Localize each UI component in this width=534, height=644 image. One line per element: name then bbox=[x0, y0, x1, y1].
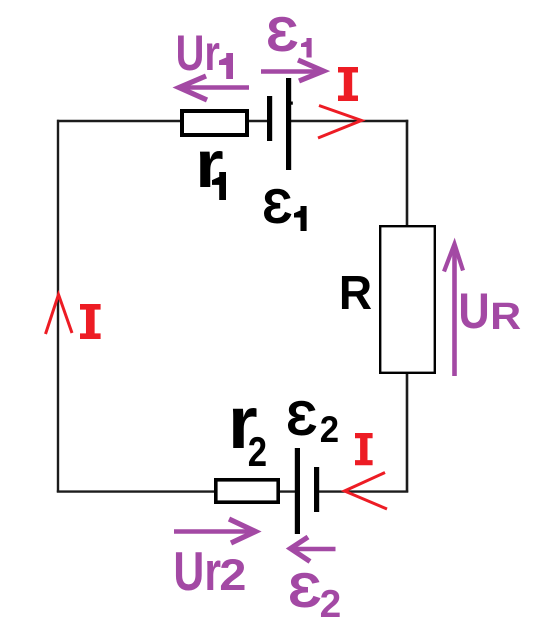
resistor r2 bbox=[216, 480, 278, 502]
label E1 purple bbox=[266, 7, 312, 62]
svg-text:2: 2 bbox=[320, 583, 342, 626]
battery E2 long plate bbox=[295, 448, 300, 534]
wire: battery E2 to r2 bbox=[279, 490, 296, 492]
svg-text:2: 2 bbox=[219, 551, 246, 600]
svg-text:U: U bbox=[458, 283, 489, 339]
wire: bottom segment (corner to battery E2) bbox=[318, 490, 408, 492]
svg-text:Ɛ: Ɛ bbox=[266, 7, 299, 62]
emf arrow E1 (points right) bbox=[261, 60, 324, 81]
emf arrow E2 (points left) bbox=[291, 537, 336, 562]
current arrow I left (red, points up) bbox=[46, 295, 73, 335]
label E2 black bbox=[286, 391, 339, 450]
svg-text:Ur: Ur bbox=[173, 541, 221, 602]
label I left red bbox=[80, 304, 101, 339]
svg-text:Ur: Ur bbox=[176, 25, 220, 81]
wire: battery E1 to top-right corner bbox=[290, 120, 408, 122]
svg-text:R: R bbox=[490, 295, 521, 337]
battery E1 long plate bbox=[286, 78, 291, 170]
battery E1 short plate bbox=[267, 96, 272, 141]
voltage arrow Ur2 (points right) bbox=[174, 519, 256, 543]
svg-text:Ɛ: Ɛ bbox=[288, 563, 322, 618]
wire: right vertical upper segment bbox=[406, 120, 409, 226]
voltage arrow UR (points up) bbox=[444, 244, 463, 376]
voltage arrow Ur1 (points left) bbox=[179, 76, 249, 100]
resistor r1 bbox=[182, 111, 247, 135]
svg-text:Ɛ: Ɛ bbox=[262, 179, 293, 234]
label E2 purple bbox=[288, 563, 342, 626]
svg-text:2: 2 bbox=[248, 429, 267, 475]
label E1 black bbox=[262, 179, 307, 234]
label Ur2 purple bbox=[173, 541, 246, 602]
svg-text:R: R bbox=[339, 267, 372, 320]
battery E2 short plate bbox=[314, 467, 319, 512]
wire: left vertical segment bbox=[57, 120, 59, 492]
wire: r1 to battery E1 bbox=[247, 120, 268, 122]
resistor R bbox=[380, 226, 435, 373]
current arrow I bottom (red, points left) bbox=[345, 473, 388, 510]
wire: right vertical lower segment bbox=[406, 373, 409, 492]
label UR purple bbox=[458, 283, 521, 339]
label r2 bbox=[228, 381, 267, 475]
svg-text:Ɛ: Ɛ bbox=[286, 391, 318, 446]
wire: r2 to bottom-left corner bbox=[57, 490, 215, 492]
label I top red bbox=[338, 67, 358, 101]
label Ur1 purple bbox=[176, 25, 233, 81]
current arrow I top (red, points right) bbox=[318, 106, 362, 139]
label r1 bbox=[195, 128, 226, 202]
svg-text:2: 2 bbox=[320, 408, 339, 450]
wire: top horizontal segment (left corner to r1) bbox=[57, 120, 182, 122]
label I bottom red bbox=[355, 433, 373, 465]
